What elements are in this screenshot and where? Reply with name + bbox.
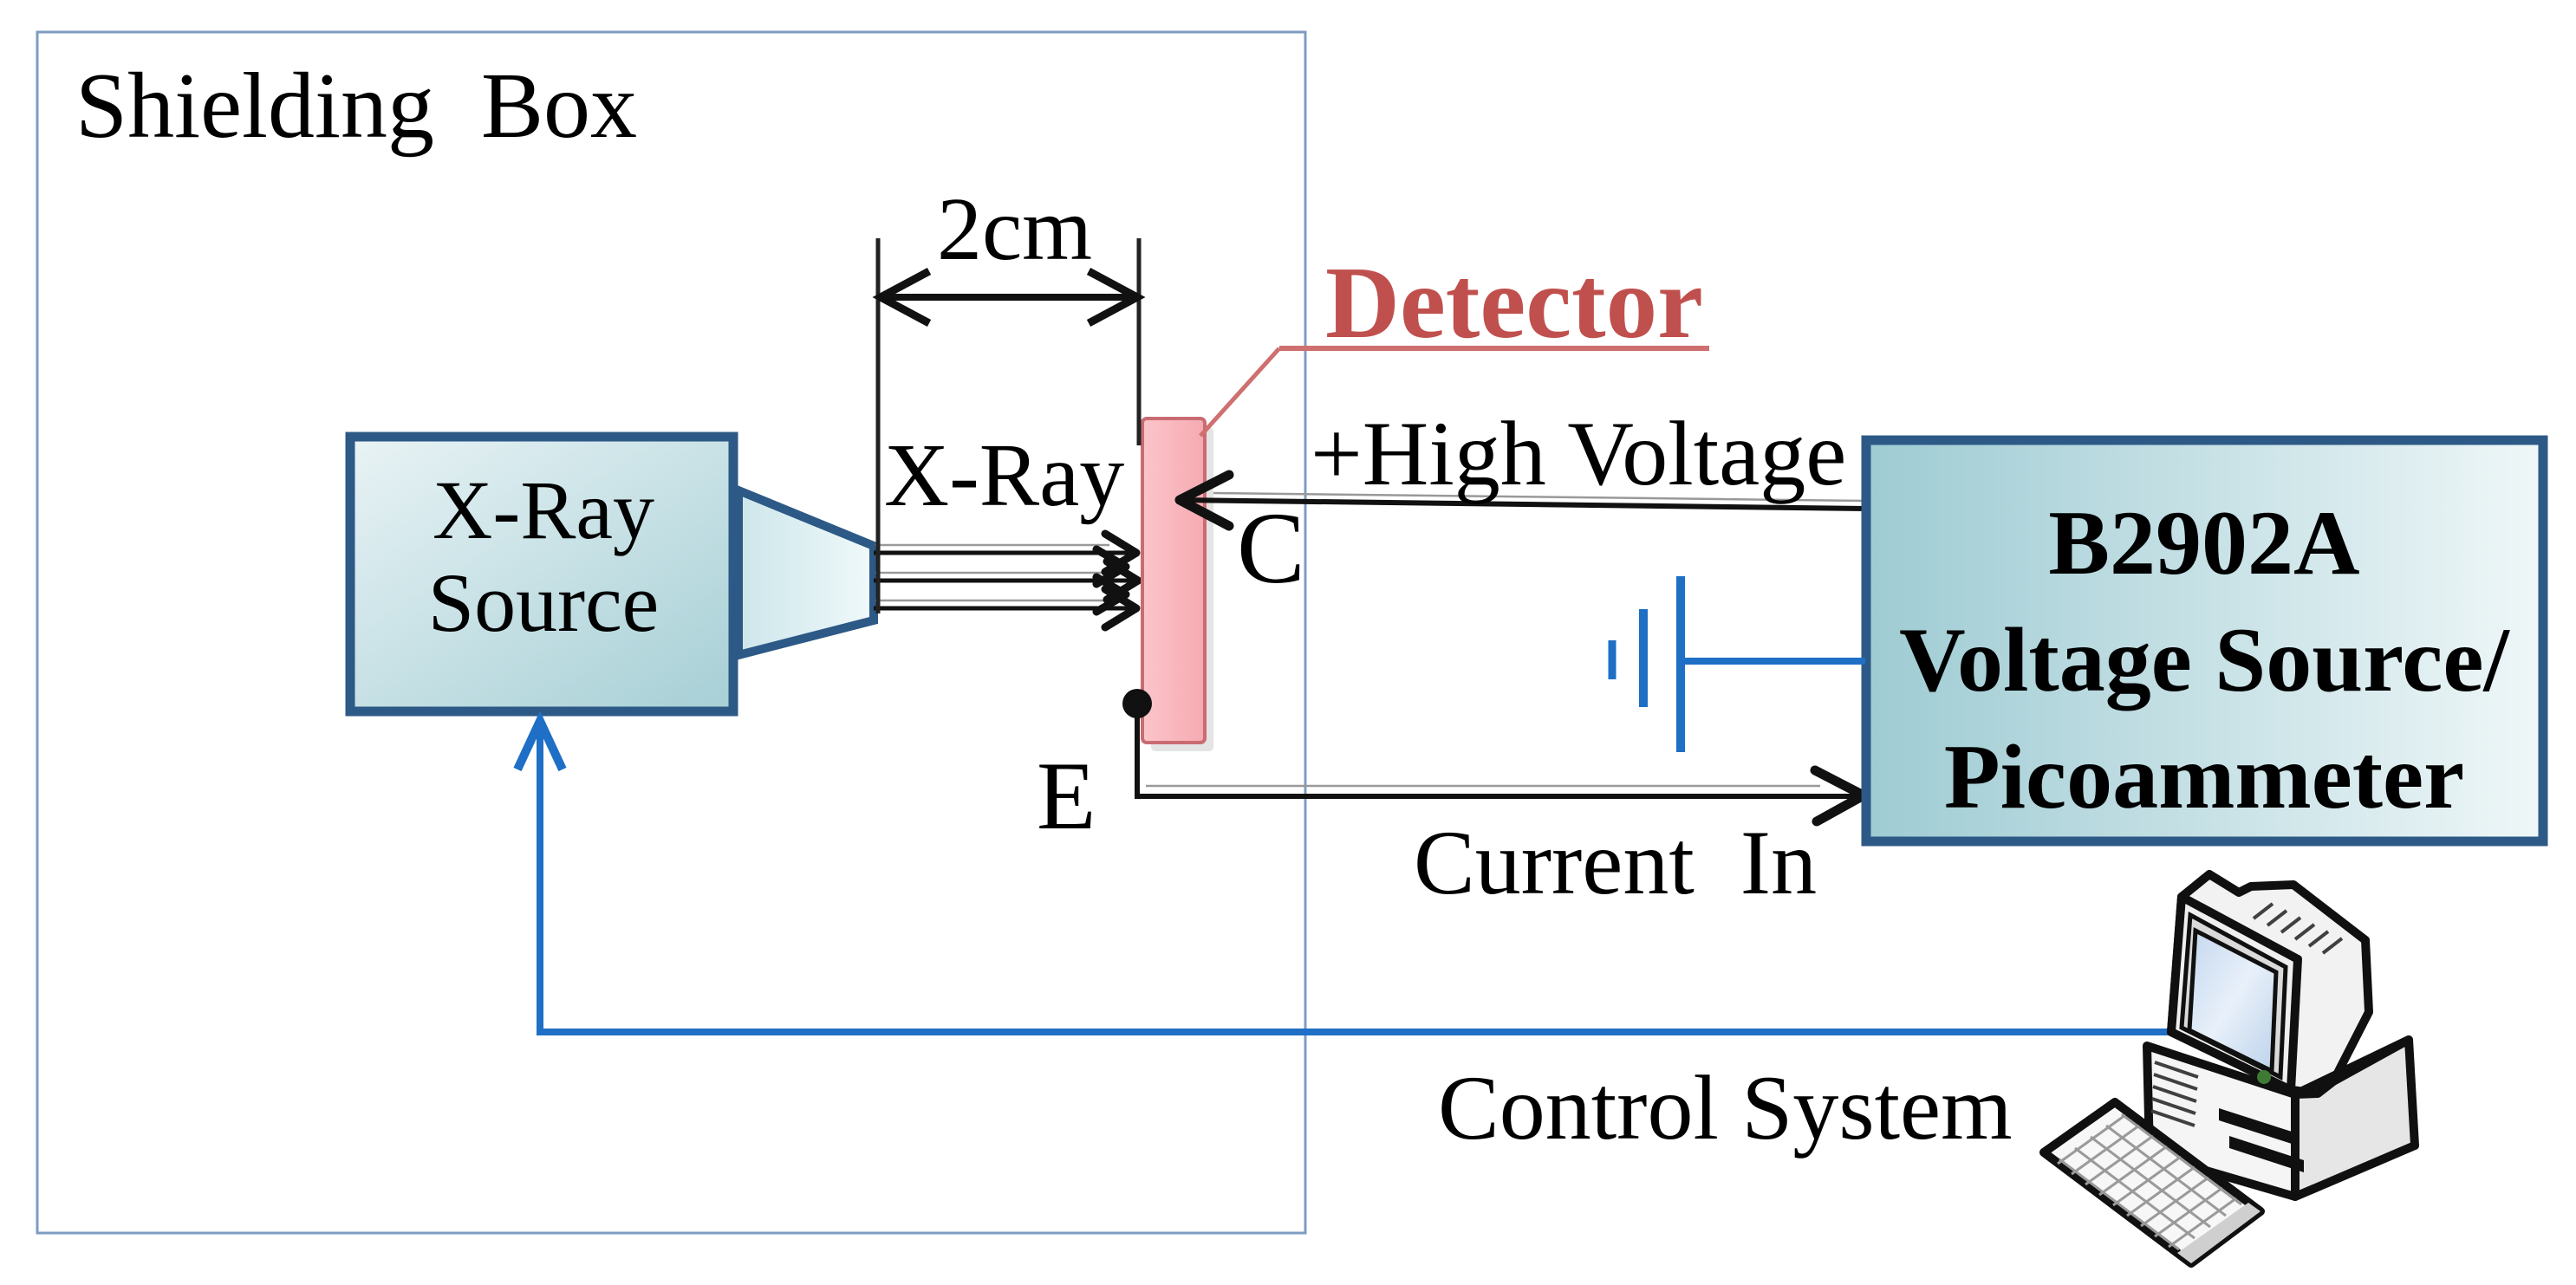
svg-text:+High Voltage: +High Voltage: [1311, 403, 1846, 504]
svg-text:Voltage Source/: Voltage Source/: [1899, 609, 2510, 711]
X-Ray source box: [350, 437, 733, 711]
high voltage wire companion: [1213, 493, 1865, 501]
x-ray beam companion lines: [875, 544, 1109, 547]
x-ray beam 2: [874, 579, 1136, 583]
svg-text:Picoammeter: Picoammeter: [1944, 726, 2464, 827]
high voltage wire: [1181, 500, 1865, 509]
computer: monitor front bezel: [2171, 897, 2298, 1090]
computer: floppy slot 2: [2229, 1136, 2304, 1172]
control wire (blue): [540, 726, 2174, 1032]
shielding box: [37, 32, 1305, 1233]
current in arrowhead: [1815, 770, 1864, 821]
beam chevron extra 2: [1096, 577, 1126, 612]
x-ray beam 1: [874, 551, 1135, 555]
ground symbol bar long: [1676, 576, 1685, 752]
detector shadow: [1151, 427, 1213, 751]
dimension line right: [1137, 238, 1142, 445]
detector underline: [1279, 346, 1709, 351]
computer: inner bezel: [2182, 915, 2286, 1077]
svg-text:Detector: Detector: [1325, 245, 1703, 360]
computer: case front: [2147, 1046, 2295, 1197]
beam chevron extra 1: [1096, 549, 1126, 584]
svg-text:Control System: Control System: [1438, 1057, 2013, 1158]
dimension line right overlay: [1137, 416, 1142, 445]
node E dot: [1122, 689, 1152, 718]
computer: floppy slot 1: [2219, 1108, 2292, 1144]
collimator cone: [738, 490, 874, 655]
svg-text:C: C: [1237, 491, 1305, 605]
svg-text:Source: Source: [428, 556, 660, 649]
svg-text:X-Ray: X-Ray: [884, 425, 1124, 525]
control wire arrowhead (up): [517, 721, 563, 769]
computer: screen: [2189, 931, 2276, 1071]
x-ray beam 3: [874, 607, 1135, 611]
ground symbol bar mid: [1639, 609, 1648, 707]
dimension double arrow: [886, 294, 1132, 301]
ground symbol bar short: [1609, 640, 1617, 679]
computer: keyboard near-edge shade: [2177, 1203, 2261, 1263]
computer: power led: [2257, 1070, 2271, 1084]
current in wire companion: [1146, 785, 1820, 788]
computer: CRT body back/top: [2147, 874, 2415, 1197]
svg-text:B2902A: B2902A: [2048, 492, 2359, 594]
computer: case top sliver: [2295, 1040, 2409, 1094]
B2902A box: [1866, 440, 2543, 841]
detector body: [1142, 419, 1205, 743]
dimension line left: [876, 238, 881, 613]
computer: case vents: [2151, 1062, 2198, 1126]
current in wire from E: [1137, 704, 1864, 796]
high voltage arrowhead: [1180, 475, 1229, 526]
svg-text:Shielding Box: Shielding Box: [75, 55, 637, 158]
svg-text:Current In: Current In: [1414, 812, 1817, 913]
svg-text:X-Ray: X-Ray: [433, 464, 654, 556]
svg-text:E: E: [1037, 743, 1096, 850]
computer: CRT top vents: [2254, 904, 2342, 953]
svg-text:2cm: 2cm: [937, 179, 1092, 279]
ground wire to B2902A: [1681, 658, 1865, 665]
computer: keyboard keys: [2058, 1114, 2241, 1249]
detector callout line: [1200, 348, 1279, 436]
computer: keyboard: [2044, 1102, 2261, 1263]
computer: case right side: [2295, 1040, 2415, 1197]
